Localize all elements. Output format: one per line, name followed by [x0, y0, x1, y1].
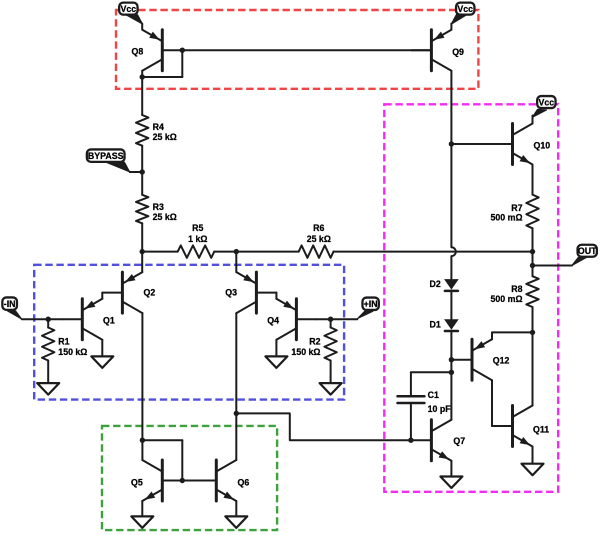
- resistor R1: [42, 319, 54, 382]
- svg-text:-IN: -IN: [4, 299, 16, 309]
- svg-text:R1: R1: [58, 337, 69, 347]
- transistor Q2 (PNP): [102, 272, 142, 313]
- label R1: [58, 337, 87, 358]
- wire: Q8 collector pin: [141, 71, 143, 77]
- node: OUT tap junction: [530, 263, 535, 268]
- ground (below R2): [320, 383, 342, 395]
- transistor Q8 (PNP): [142, 30, 182, 71]
- wire: Vcc pointer to Q8 emitter: [127, 15, 143, 30]
- svg-text:Q4: Q4: [267, 315, 279, 325]
- wire: rail right segment: [334, 251, 533, 253]
- svg-text:10 pF: 10 pF: [428, 404, 452, 414]
- label Q1: [103, 315, 115, 325]
- wire: R4 to bypass node: [141, 146, 143, 172]
- transistor Q6 (NPN): [196, 460, 236, 501]
- node: second-stage node junction: [234, 411, 239, 416]
- resistor R5: [178, 245, 215, 257]
- group box: input differential stage (blue dashed): [34, 265, 344, 400]
- svg-text:1 kΩ: 1 kΩ: [188, 234, 207, 244]
- ground (below Q4): [265, 356, 287, 368]
- svg-text:R6: R6: [313, 223, 324, 233]
- wire: D2 cathode to D1 anode: [450, 291, 452, 319]
- wire: R3 to rail: [141, 223, 143, 251]
- svg-text:OUT: OUT: [578, 246, 597, 256]
- wire: node to Q7 collector: [450, 372, 452, 419]
- label R4: [153, 122, 177, 142]
- ground (below Q6): [225, 516, 247, 528]
- svg-text:R3: R3: [153, 202, 164, 212]
- label R6: [307, 223, 331, 244]
- wire: +IN pointer: [357, 311, 373, 318]
- wire: Q5 base to Q6 base: [182, 480, 196, 482]
- transistor Q11 (NPN): [493, 406, 533, 447]
- power flag Vcc (output): [537, 96, 555, 108]
- wire: Q9 collector to Q10 base: [451, 143, 492, 145]
- wire: rail mid segment: [214, 251, 298, 253]
- svg-text:Q9: Q9: [452, 47, 464, 57]
- diode D2: [444, 279, 459, 291]
- transistor Q3 (PNP): [236, 272, 276, 313]
- svg-text:25 kΩ: 25 kΩ: [153, 132, 177, 142]
- svg-text:R8: R8: [511, 284, 522, 294]
- wire: Q2 collector down to Q5: [141, 313, 143, 460]
- svg-text:Q5: Q5: [131, 478, 143, 488]
- label R8: [491, 284, 523, 304]
- wire: Q7 emitter to ground: [450, 461, 452, 476]
- svg-text:Q8: Q8: [132, 46, 144, 56]
- svg-text:Vcc: Vcc: [457, 4, 473, 14]
- group box: current-mirror load (green dashed): [102, 426, 277, 530]
- net flag OUT: [578, 245, 598, 257]
- resistor R2: [324, 319, 336, 382]
- group box: output stage (magenta dashed): [384, 104, 558, 492]
- wire: D1 cathode to Q12 base node: [450, 331, 452, 372]
- wire: OUT pointer: [572, 257, 588, 266]
- label R7: [491, 203, 523, 223]
- power flag Vcc (top right): [456, 3, 474, 15]
- transistor Q10 (NPN): [493, 124, 533, 165]
- svg-text:R2: R2: [309, 337, 320, 347]
- transistor Q4 (PNP): [276, 299, 316, 340]
- svg-text:Q10: Q10: [534, 140, 551, 150]
- node: Q8 base-collector tie junction: [180, 48, 185, 53]
- label D1: [430, 319, 441, 329]
- node: C1/compensation junction: [449, 370, 454, 375]
- label Q5: [131, 478, 143, 488]
- ground (below Q7): [440, 477, 462, 489]
- wire: Q6 emitter to ground: [235, 501, 237, 516]
- svg-text:BYPASS: BYPASS: [88, 151, 124, 161]
- wire: Q5 diode-connect tap: [142, 440, 182, 480]
- node: Q10 base junction: [449, 141, 454, 146]
- svg-text:D2: D2: [430, 279, 441, 289]
- svg-text:Q6: Q6: [238, 478, 250, 488]
- wire: rail to Q2 emitter: [141, 252, 143, 273]
- transistor Q1 (PNP): [62, 299, 102, 340]
- wire: +IN to Q4 base: [316, 318, 357, 320]
- wire: Q4 emitter to Q3 base: [275, 293, 277, 299]
- node: bypass junction: [140, 169, 145, 174]
- svg-text:Q7: Q7: [453, 436, 465, 446]
- wire: Q12 collector to Q11 base: [491, 380, 494, 426]
- wire: Q8 diode-connect stub: [142, 50, 182, 77]
- resistor R3: [136, 195, 148, 224]
- group box: input bias current mirror (red dashed): [116, 10, 478, 89]
- label R5: [188, 223, 207, 244]
- label Q10: [534, 140, 551, 150]
- label Q11: [533, 424, 549, 434]
- node: Q8 collector junction: [140, 74, 145, 79]
- transistor Q9 (PNP): [411, 30, 451, 71]
- label D2: [430, 279, 441, 289]
- ground (below R1): [37, 383, 59, 395]
- svg-text:R5: R5: [192, 223, 203, 233]
- label Q2: [144, 287, 156, 297]
- svg-text:Q12: Q12: [493, 355, 510, 365]
- node: Q12 base junction: [449, 357, 454, 362]
- wire: rail to Q3 emitter: [235, 252, 237, 273]
- wire: Q5 emitter to ground: [141, 501, 143, 516]
- wire: R7 to output node: [532, 228, 534, 251]
- label R3: [153, 202, 177, 222]
- wire: Q10 emitter to R7: [532, 165, 534, 195]
- wire: hop to D2 anode: [450, 256, 452, 279]
- wire: Q8 base to Q9 base: [182, 49, 431, 51]
- wire: crossover hop: [451, 247, 455, 256]
- capacitor C1: [398, 396, 425, 403]
- svg-text:D1: D1: [430, 319, 441, 329]
- svg-text:Q2: Q2: [144, 287, 156, 297]
- wire: C1 top lead: [411, 372, 452, 396]
- net flag +IN: [362, 298, 378, 310]
- transistor Q12 (PNP): [452, 339, 492, 380]
- wire: OUT tap: [533, 265, 573, 267]
- resistor R7: [526, 195, 538, 229]
- wire: BYPASS pointer: [106, 162, 142, 172]
- svg-text:+IN: +IN: [364, 299, 378, 309]
- svg-text:C1: C1: [428, 390, 439, 400]
- label Q4: [267, 315, 279, 325]
- node: Q5 collector-base tap: [140, 438, 145, 443]
- svg-text:R7: R7: [511, 203, 522, 213]
- svg-text:Q3: Q3: [225, 287, 237, 297]
- svg-text:25 kΩ: 25 kΩ: [153, 212, 177, 222]
- label Q3: [225, 287, 237, 297]
- label Q12: [493, 355, 510, 365]
- net flag BYPASS: [87, 149, 125, 161]
- svg-text:Vcc: Vcc: [539, 97, 555, 107]
- wire: output node segment: [532, 252, 534, 266]
- wire: C1 bottom lead: [410, 403, 412, 440]
- svg-text:Vcc: Vcc: [121, 4, 137, 14]
- svg-text:500 mΩ: 500 mΩ: [491, 213, 523, 223]
- wire: Vcc pointer to Q10 collector: [532, 109, 547, 123]
- resistor R6: [299, 245, 334, 257]
- label Q6: [238, 478, 250, 488]
- svg-text:Q11: Q11: [533, 424, 549, 434]
- ground (below Q1): [91, 356, 113, 368]
- wire: Q11 emitter to ground: [532, 447, 534, 464]
- label Q9: [452, 47, 464, 57]
- node: R2 top junction: [328, 317, 333, 322]
- svg-text:R4: R4: [153, 122, 164, 132]
- node: mirror base junction: [180, 478, 185, 483]
- wire: -IN to Q1 base: [22, 318, 63, 320]
- node: R1 top junction: [46, 317, 51, 322]
- node: output node (rail): [530, 249, 535, 254]
- transistor Q7 (NPN): [411, 420, 451, 461]
- wire: mirror output to Q7 base: [236, 413, 411, 440]
- transistor Q5 (NPN): [142, 460, 182, 501]
- node: rail-mid junction: [234, 249, 239, 254]
- wire: Q11 collector up to Q12 emitter node: [532, 332, 534, 405]
- diode D1: [444, 319, 459, 331]
- wire: bypass node to R3: [141, 172, 143, 195]
- label Q8: [132, 46, 144, 56]
- node: rail-left junction: [140, 249, 145, 254]
- svg-text:150 kΩ: 150 kΩ: [291, 347, 320, 357]
- wire: -IN pointer: [7, 311, 22, 320]
- svg-text:150 kΩ: 150 kΩ: [58, 347, 87, 357]
- label R2: [291, 337, 320, 358]
- wire: Q12 emitter pin: [492, 332, 533, 339]
- wire: Q3 collector down to Q6: [235, 313, 237, 460]
- net flag -IN: [2, 297, 17, 309]
- wire: OUT node to R8: [532, 266, 534, 277]
- svg-text:Q1: Q1: [103, 315, 115, 325]
- wire: Q1 emitter to Q2 base: [101, 293, 103, 299]
- power flag Vcc (top left): [119, 3, 137, 15]
- resistor R8: [526, 276, 538, 307]
- node: Q12 emitter junction: [530, 330, 535, 335]
- wire: R8 to Q12 emitter node: [532, 307, 534, 332]
- wire: rail left segment: [142, 251, 178, 253]
- svg-text:500 mΩ: 500 mΩ: [491, 294, 523, 304]
- node: Q7 base junction: [408, 438, 413, 443]
- wire: Q8 collector to R4: [141, 77, 143, 115]
- resistor R4: [136, 115, 148, 146]
- wire: Q4 collector to ground: [275, 340, 277, 356]
- ground (below Q5): [131, 516, 153, 528]
- wire: Vcc pointer to Q9 emitter: [451, 14, 467, 29]
- ground (below Q11): [522, 464, 544, 476]
- wire: Q1 collector to ground: [101, 340, 103, 356]
- svg-text:25 kΩ: 25 kΩ: [307, 234, 331, 244]
- wire: Q9 collector down to crossover: [450, 71, 452, 248]
- label C1: [428, 390, 452, 414]
- label Q7: [453, 436, 465, 446]
